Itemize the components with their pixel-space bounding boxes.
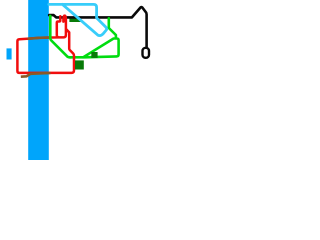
brown river crossing bottom <box>21 73 51 77</box>
green line G1 vertical and diagonal over junction <box>50 16 71 57</box>
brown river crossing top <box>27 38 50 39</box>
dark green square on balloon bottom edge <box>91 52 97 58</box>
black terminal bulb <box>143 48 150 58</box>
blue square west of river <box>7 48 12 59</box>
dark green bar on black line <box>69 18 81 22</box>
red line loop <box>17 16 74 73</box>
river (blue band) <box>28 0 49 160</box>
green feed segment to balloon <box>70 56 84 59</box>
cyan line with horizontal and loop balloon <box>49 4 107 35</box>
dark green rect right of red vertical <box>75 60 84 69</box>
black line with peak and terminal bulb <box>49 7 146 48</box>
green line G2 from black line to balloon <box>109 18 116 38</box>
green balloon triangle <box>83 39 119 58</box>
